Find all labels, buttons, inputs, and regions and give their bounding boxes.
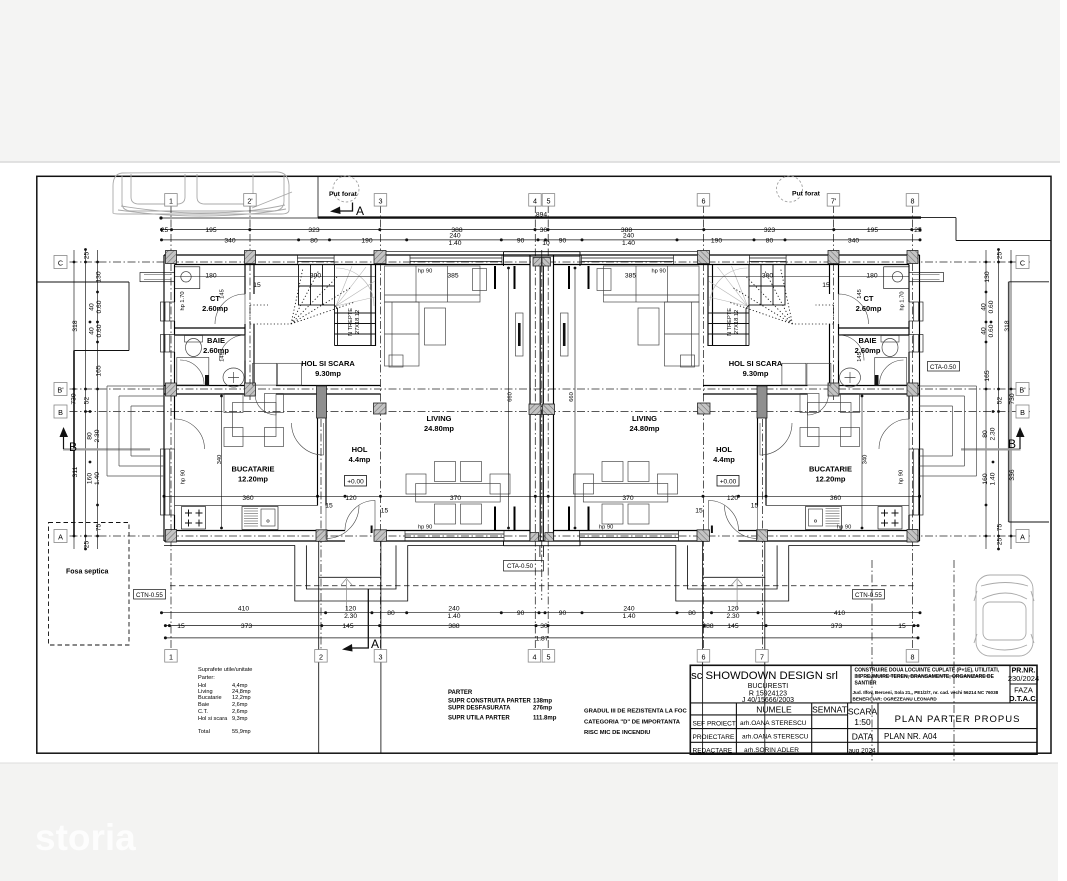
svg-text:52: 52 — [84, 397, 91, 405]
baie — [186, 339, 202, 357]
dim hooks in CT — [175, 276, 376, 278]
svg-text:190: 190 — [711, 237, 722, 244]
svg-text:C: C — [1020, 258, 1025, 267]
svg-text:CTN-0.55: CTN-0.55 — [136, 592, 163, 599]
svg-text:J 40/15666/2003: J 40/15666/2003 — [742, 697, 794, 704]
svg-text:360: 360 — [242, 495, 253, 502]
svg-text:388: 388 — [448, 623, 459, 630]
svg-text:GRADUL III DE REZISTENTA LA FO: GRADUL III DE REZISTENTA LA FOC — [584, 709, 688, 715]
svg-text:80: 80 — [387, 610, 395, 617]
svg-text:75: 75 — [997, 524, 1004, 532]
svg-text:80: 80 — [766, 237, 774, 244]
svg-text:1.40: 1.40 — [448, 240, 461, 247]
svg-text:4: 4 — [533, 196, 537, 205]
svg-text:2.30: 2.30 — [94, 429, 101, 442]
svg-text:24.80mp: 24.80mp — [629, 424, 659, 433]
rotated small texts — [180, 289, 906, 484]
svg-text:180: 180 — [205, 273, 216, 280]
svg-text:120: 120 — [345, 495, 356, 502]
svg-text:160: 160 — [87, 473, 94, 484]
svg-text:660: 660 — [569, 392, 575, 402]
svg-text:80: 80 — [87, 432, 94, 440]
svg-text:145: 145 — [220, 289, 226, 299]
svg-text:hp 90: hp 90 — [181, 470, 187, 484]
svg-text:BUCATARIE: BUCATARIE — [231, 465, 274, 474]
sofa — [385, 266, 481, 302]
svg-text:A: A — [58, 532, 63, 541]
bottom-left area text block — [198, 667, 252, 735]
svg-text:276mp: 276mp — [533, 706, 552, 712]
CT boiler — [175, 267, 200, 289]
tv — [516, 313, 524, 356]
svg-text:190: 190 — [361, 237, 372, 244]
svg-text:240: 240 — [448, 606, 459, 613]
svg-text:SCARA: SCARA — [848, 707, 878, 717]
CTN dashed level line — [170, 585, 915, 587]
room labels right unit — [629, 294, 881, 484]
svg-text:12.20mp: 12.20mp — [815, 475, 845, 484]
svg-text:55,9mp: 55,9mp — [232, 729, 251, 735]
kitchen partition grid2 — [317, 394, 319, 506]
svg-text:12.20mp: 12.20mp — [238, 475, 268, 484]
svg-text:300: 300 — [310, 273, 321, 280]
svg-text:RISC MIC DE INCENDIU: RISC MIC DE INCENDIU — [584, 730, 650, 736]
right chain labels (rotated) — [981, 252, 1017, 546]
svg-text:D.T.A.C.: D.T.A.C. — [1009, 694, 1038, 703]
site boundary thick line top — [37, 176, 1051, 536]
svg-text:12,2mp: 12,2mp — [232, 695, 251, 701]
svg-text:NUMELE: NUMELE — [756, 704, 792, 714]
svg-text:90: 90 — [517, 610, 525, 617]
svg-text:hp 1.70: hp 1.70 — [900, 292, 906, 311]
top wall — [164, 254, 542, 256]
svg-text:240: 240 — [623, 606, 634, 613]
svg-text:90: 90 — [559, 610, 567, 617]
svg-text:Bucatarie: Bucatarie — [198, 695, 222, 701]
svg-text:894: 894 — [536, 212, 547, 219]
svg-text:N TREPTE: N TREPTE — [727, 308, 733, 336]
grid bubbles top — [165, 194, 919, 207]
svg-text:195: 195 — [867, 227, 878, 234]
svg-text:165: 165 — [96, 365, 103, 376]
interior: grid 2' wall — [244, 265, 246, 395]
svg-text:SUPR CONSTRUITA PARTER: SUPR CONSTRUITA PARTER — [448, 699, 532, 705]
svg-text:Total: Total — [198, 729, 210, 735]
svg-text:111.8mp: 111.8mp — [533, 716, 557, 722]
svg-text:0.60: 0.60 — [988, 300, 995, 313]
svg-text:40: 40 — [89, 303, 96, 311]
svg-text:370: 370 — [622, 495, 633, 502]
svg-text:aug 2024: aug 2024 — [848, 748, 875, 755]
svg-text:HOL SI SCARA: HOL SI SCARA — [301, 359, 355, 368]
svg-text:300: 300 — [762, 273, 773, 280]
porch steps — [295, 541, 408, 601]
svg-text:8: 8 — [911, 196, 915, 205]
kitchen table — [224, 394, 243, 413]
CT / BAIE divider — [175, 328, 246, 335]
grid lines dash-dot — [55, 205, 1030, 763]
svg-text:410: 410 — [238, 606, 249, 613]
svg-text:80: 80 — [310, 237, 318, 244]
svg-text:4.4mp: 4.4mp — [713, 455, 735, 464]
svg-text:8: 8 — [911, 652, 915, 661]
porch up arrow — [341, 579, 352, 611]
svg-text:2.60mp: 2.60mp — [202, 304, 228, 313]
side terrace — [107, 386, 164, 476]
svg-text:HOL SI SCARA: HOL SI SCARA — [729, 359, 783, 368]
room labels left unit — [202, 294, 454, 484]
svg-text:hp 1.70: hp 1.70 — [180, 292, 186, 311]
svg-text:SEF PROIECT: SEF PROIECT — [693, 721, 736, 728]
left wall — [163, 255, 165, 541]
svg-text:25: 25 — [997, 252, 1004, 260]
svg-text:HOL: HOL — [716, 445, 732, 454]
dimension rows top — [161, 230, 921, 638]
plinth under bottom wall — [164, 544, 504, 546]
car bottom-right — [974, 575, 1034, 656]
top wall windows — [297, 255, 334, 265]
svg-text:25: 25 — [997, 538, 1004, 546]
furniture — [140, 266, 523, 530]
svg-text:B': B' — [57, 385, 64, 394]
PARTER text block — [448, 690, 557, 722]
svg-text:arh.OANA STERESCU: arh.OANA STERESCU — [740, 720, 807, 727]
svg-text:130: 130 — [984, 271, 991, 282]
svg-text:9.30mp: 9.30mp — [315, 369, 341, 378]
svg-text:7: 7 — [760, 652, 764, 661]
svg-text:LIVING: LIVING — [632, 414, 657, 423]
right site boundary — [1008, 282, 1010, 522]
svg-text:CT: CT — [864, 294, 874, 303]
svg-text:Baie: Baie — [198, 702, 209, 708]
columns — [166, 251, 542, 543]
svg-text:336: 336 — [1009, 469, 1016, 480]
svg-text:145: 145 — [857, 352, 863, 362]
svg-text:1.40: 1.40 — [447, 613, 460, 620]
svg-text:hp 90: hp 90 — [418, 525, 432, 531]
svg-text:0.60: 0.60 — [96, 300, 103, 313]
grid bubbles bottom — [165, 650, 919, 663]
svg-text:PLAN NR. A04: PLAN NR. A04 — [884, 732, 937, 741]
put forat — [333, 176, 803, 202]
svg-text:30: 30 — [540, 623, 548, 630]
svg-text:4.4mp: 4.4mp — [349, 455, 371, 464]
svg-text:340: 340 — [217, 455, 223, 465]
section A marks — [330, 203, 368, 652]
svg-text:323: 323 — [308, 227, 319, 234]
svg-text:PLAN PARTER PROPUS: PLAN PARTER PROPUS — [895, 714, 1021, 725]
svg-text:IMPREJMUIRE TEREN, BRANSAMENTE: IMPREJMUIRE TEREN, BRANSAMENTE, ORGANIZA… — [855, 674, 995, 680]
svg-text:C.T.: C.T. — [198, 709, 208, 715]
svg-text:25: 25 — [84, 541, 91, 549]
side dim chains — [74, 250, 1011, 549]
svg-text:storia: storia — [35, 817, 136, 858]
svg-text:340: 340 — [863, 455, 869, 465]
svg-text:6: 6 — [702, 196, 706, 205]
walkways below porches — [319, 577, 765, 752]
svg-text:0.60: 0.60 — [988, 324, 995, 337]
svg-text:195: 195 — [205, 227, 216, 234]
svg-text:52: 52 — [997, 397, 1004, 405]
svg-text:CTA-0.50: CTA-0.50 — [507, 563, 534, 570]
svg-text:25: 25 — [161, 227, 169, 234]
bottom wall — [164, 540, 542, 542]
svg-text:25: 25 — [84, 252, 91, 260]
svg-text:1.40: 1.40 — [94, 472, 101, 485]
svg-text:385: 385 — [625, 273, 636, 280]
svg-text:2.30: 2.30 — [344, 613, 357, 620]
svg-text:1.40: 1.40 — [622, 240, 635, 247]
svg-text:75: 75 — [96, 524, 103, 532]
svg-text:340: 340 — [848, 237, 859, 244]
svg-text:1:50: 1:50 — [854, 717, 871, 727]
GEOMETRY HALF (left unit), mirrored for right — [107, 251, 542, 611]
svg-text:hp 90: hp 90 — [899, 470, 905, 484]
svg-text:138mp: 138mp — [533, 699, 552, 705]
kitchen counter — [175, 505, 318, 507]
svg-text:+0.00: +0.00 — [720, 479, 737, 486]
svg-text:1: 1 — [169, 196, 173, 205]
walls — [164, 252, 542, 557]
Fosa septica — [49, 523, 130, 646]
bottom gray band — [0, 764, 1058, 881]
svg-text:BUCURESTI: BUCURESTI — [748, 683, 789, 690]
svg-text:373: 373 — [241, 623, 252, 630]
svg-text:90: 90 — [559, 237, 567, 244]
svg-text:388: 388 — [702, 623, 713, 630]
svg-text:SUPR DESFASURATA: SUPR DESFASURATA — [448, 706, 511, 712]
svg-text:27X18.12: 27X18.12 — [355, 310, 361, 334]
svg-text:385: 385 — [447, 273, 458, 280]
svg-text:145: 145 — [727, 623, 738, 630]
svg-text:373: 373 — [831, 623, 842, 630]
svg-text:2.60mp: 2.60mp — [856, 304, 882, 313]
svg-text:arh.SORIN ADLER: arh.SORIN ADLER — [744, 747, 799, 754]
svg-text:PARTER: PARTER — [448, 690, 473, 696]
svg-text:2,6mp: 2,6mp — [232, 702, 248, 708]
svg-text:9.30mp: 9.30mp — [743, 369, 769, 378]
svg-text:27X18.12: 27X18.12 — [734, 310, 740, 334]
doors — [175, 294, 376, 539]
svg-text:B': B' — [1019, 385, 1026, 394]
top gray band — [0, 0, 1060, 162]
svg-text:1.40: 1.40 — [990, 472, 997, 485]
small in-plan dims — [205, 273, 877, 515]
svg-text:120: 120 — [345, 606, 356, 613]
svg-text:40: 40 — [981, 303, 988, 311]
sheet border — [37, 176, 1051, 753]
svg-text:80: 80 — [982, 430, 989, 438]
stair enclosure wall at grid3 — [370, 265, 372, 347]
svg-text:CTA-0.50: CTA-0.50 — [930, 364, 957, 371]
dining table — [435, 462, 456, 482]
svg-text:15: 15 — [898, 623, 906, 630]
svg-text:B: B — [69, 440, 77, 454]
svg-text:24.80mp: 24.80mp — [424, 424, 454, 433]
svg-text:C: C — [58, 258, 63, 267]
svg-text:B: B — [1020, 408, 1025, 417]
windows — [161, 255, 505, 541]
svg-text:3: 3 — [379, 652, 383, 661]
svg-text:145: 145 — [857, 289, 863, 299]
svg-text:145: 145 — [342, 623, 353, 630]
stairs — [299, 265, 376, 346]
svg-text:10: 10 — [542, 240, 550, 247]
svg-text:7': 7' — [831, 196, 837, 205]
B section marks — [63, 448, 1021, 450]
center top recess band — [504, 252, 542, 266]
car top-left (clipped by sheet top) — [113, 172, 292, 216]
svg-text:CATEGORIA "D" DE IMPORTANTA: CATEGORIA "D" DE IMPORTANTA — [584, 720, 681, 726]
svg-text:5: 5 — [547, 196, 551, 205]
svg-text:5: 5 — [547, 652, 551, 661]
svg-text:160: 160 — [982, 473, 989, 484]
svg-text:2.30: 2.30 — [726, 613, 739, 620]
svg-text:318: 318 — [72, 320, 79, 331]
CTN/CTA labels — [134, 362, 960, 600]
svg-text:15: 15 — [177, 623, 185, 630]
svg-text:Jud. Ilfov, Berceni, Sola 21,,: Jud. Ilfov, Berceni, Sola 21,, PE1/2/7, … — [853, 690, 999, 695]
svg-text:BUCATARIE: BUCATARIE — [809, 465, 852, 474]
left wall windows — [161, 302, 175, 321]
svg-text:sc SHOWDOWN DESIGN srl: sc SHOWDOWN DESIGN srl — [691, 670, 838, 682]
svg-text:0.60: 0.60 — [96, 324, 103, 337]
svg-text:15: 15 — [695, 508, 703, 515]
row bubbles — [54, 256, 1029, 543]
svg-text:230/2024: 230/2024 — [1008, 674, 1039, 683]
svg-text:410: 410 — [834, 610, 845, 617]
svg-text:1.40: 1.40 — [622, 613, 635, 620]
svg-text:arh.OANA STERESCU: arh.OANA STERESCU — [742, 734, 809, 741]
bottom wall window — [405, 531, 504, 542]
svg-text:730: 730 — [1009, 393, 1016, 404]
left site boundary — [37, 282, 129, 351]
svg-text:25: 25 — [914, 227, 922, 234]
svg-text:2': 2' — [247, 196, 253, 205]
svg-text:240: 240 — [623, 233, 634, 240]
svg-text:660: 660 — [508, 392, 514, 402]
window jamb posts — [494, 266, 496, 289]
svg-text:318: 318 — [1004, 320, 1011, 331]
svg-text:Parter:: Parter: — [198, 675, 215, 681]
svg-text:370: 370 — [450, 495, 461, 502]
bench in hol — [253, 363, 277, 385]
stair dotted walk line — [250, 268, 355, 324]
interior dim line — [164, 495, 920, 497]
svg-text:Hol si scara: Hol si scara — [198, 716, 228, 722]
left chain labels (rotated) — [71, 252, 104, 549]
svg-text:120: 120 — [727, 606, 738, 613]
svg-text:hp 90: hp 90 — [418, 269, 432, 275]
svg-text:SANTIER: SANTIER — [855, 681, 877, 687]
svg-text:15: 15 — [751, 503, 759, 510]
svg-text:730: 730 — [71, 393, 78, 404]
upper floor overhang line — [381, 251, 542, 253]
svg-text:HOL: HOL — [352, 445, 368, 454]
+0.00 boxes — [345, 476, 367, 487]
svg-text:Fosa septica: Fosa septica — [66, 569, 109, 576]
svg-text:SEMNAT: SEMNAT — [812, 704, 847, 714]
svg-text:40: 40 — [981, 327, 988, 335]
svg-text:15: 15 — [253, 282, 261, 289]
bottom center recess — [504, 541, 542, 546]
svg-text:hp 90: hp 90 — [599, 525, 613, 531]
svg-text:2,6mp: 2,6mp — [232, 709, 248, 715]
svg-text:240: 240 — [449, 233, 460, 240]
svg-text:40: 40 — [89, 327, 96, 335]
svg-text:1.87: 1.87 — [535, 636, 548, 643]
svg-text:2.30: 2.30 — [990, 427, 997, 440]
svg-text:N TREPTE: N TREPTE — [348, 308, 354, 336]
svg-text:360: 360 — [830, 495, 841, 502]
B' wall — [164, 385, 381, 387]
party wall — [529, 255, 531, 541]
svg-text:B: B — [58, 408, 63, 417]
svg-text:REDACTARE: REDACTARE — [693, 748, 733, 755]
svg-text:4: 4 — [533, 652, 537, 661]
TITLE BLOCK — [690, 665, 1039, 754]
svg-text:Put forat: Put forat — [792, 191, 821, 198]
top dim labels — [161, 212, 922, 248]
svg-text:180: 180 — [866, 273, 877, 280]
svg-text:323: 323 — [764, 227, 775, 234]
svg-text:120: 120 — [727, 495, 738, 502]
svg-text:15: 15 — [822, 282, 830, 289]
svg-text:+0.00: +0.00 — [347, 479, 364, 486]
svg-text:hp 90: hp 90 — [652, 269, 666, 275]
svg-text:hp 90: hp 90 — [837, 525, 851, 531]
svg-text:BAIE: BAIE — [207, 336, 225, 345]
bottom dim labels — [177, 606, 906, 643]
svg-text:BAIE: BAIE — [859, 336, 877, 345]
svg-text:30: 30 — [540, 227, 548, 234]
svg-text:BENEFICIAR: OGREZEANU LEONARD: BENEFICIAR: OGREZEANU LEONARD — [853, 697, 938, 702]
svg-text:A: A — [1020, 532, 1025, 541]
svg-text:Suprafete utile/unitate: Suprafete utile/unitate — [198, 667, 252, 673]
svg-text:B: B — [1008, 437, 1016, 451]
svg-text:LIVING: LIVING — [426, 414, 451, 423]
interior vertical dims — [222, 268, 509, 528]
svg-text:130: 130 — [96, 271, 103, 282]
svg-text:PROIECTARE: PROIECTARE — [693, 734, 735, 741]
svg-text:340: 340 — [224, 237, 235, 244]
svg-text:CTN-0.55: CTN-0.55 — [855, 592, 882, 599]
svg-text:311: 311 — [72, 466, 79, 477]
svg-text:15: 15 — [325, 503, 333, 510]
svg-text:90: 90 — [517, 237, 525, 244]
svg-text:145: 145 — [220, 352, 226, 362]
svg-text:3: 3 — [379, 196, 383, 205]
svg-text:165: 165 — [984, 370, 991, 381]
svg-text:A: A — [356, 204, 364, 218]
svg-text:9,3mp: 9,3mp — [232, 716, 248, 722]
svg-text:SUPR UTILA PARTER: SUPR UTILA PARTER — [448, 716, 510, 722]
svg-text:2: 2 — [319, 652, 323, 661]
svg-text:A: A — [371, 637, 379, 651]
svg-text:Put forat: Put forat — [329, 191, 358, 198]
svg-text:6: 6 — [702, 652, 706, 661]
svg-text:1: 1 — [169, 652, 173, 661]
svg-text:80: 80 — [688, 610, 696, 617]
svg-text:15: 15 — [381, 508, 389, 515]
svg-text:CONSTRUIRE DOUA LOCUINTE CUPLA: CONSTRUIRE DOUA LOCUINTE CUPLATE (P+1E),… — [855, 668, 1000, 674]
svg-text:DATA: DATA — [852, 732, 874, 742]
